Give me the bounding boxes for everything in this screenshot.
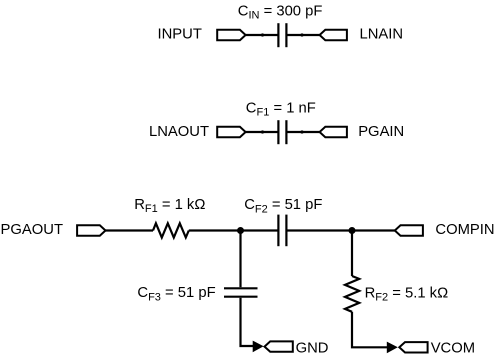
svg-text:INPUT: INPUT bbox=[158, 27, 202, 43]
capacitor CF3 bbox=[224, 288, 258, 296]
svg-text:PGAOUT: PGAOUT bbox=[1, 222, 63, 238]
svg-text:LNAIN: LNAIN bbox=[360, 27, 404, 43]
svg-text:LNAOUT: LNAOUT bbox=[149, 124, 209, 140]
capacitor CIN bbox=[278, 23, 286, 47]
svg-text:COMPIN: COMPIN bbox=[435, 222, 494, 238]
capacitor CF1 bbox=[278, 120, 286, 144]
svg-text:GND: GND bbox=[296, 340, 329, 356]
svg-text:VCOM: VCOM bbox=[431, 340, 475, 356]
wire RF1 to node A bbox=[189, 229, 278, 231]
svg-text:PGAIN: PGAIN bbox=[358, 124, 404, 140]
terminal PGAOUT (port tag) bbox=[77, 225, 105, 235]
terminal VCOM (port tag) bbox=[399, 342, 427, 352]
wire CIN to LNAIN bbox=[287, 34, 319, 36]
junction dot on wire bbox=[300, 130, 303, 133]
wire PGAOUT to RF1 bbox=[106, 229, 154, 231]
svg-text:RF1 = 1 kΩ: RF1 = 1 kΩ bbox=[134, 197, 205, 215]
junction dot on wire bbox=[300, 33, 303, 36]
wire node B down to RF2 bbox=[351, 231, 353, 277]
arrow into GND terminal bbox=[253, 341, 264, 353]
terminal INPUT (port tag) bbox=[217, 30, 245, 40]
node B junction dot bbox=[349, 227, 356, 234]
junction dot on wire bbox=[261, 33, 264, 36]
wire RF2 down and right to VCOM bbox=[352, 312, 389, 348]
resistor RF1 bbox=[153, 223, 189, 237]
svg-text:CF1 = 1 nF: CF1 = 1 nF bbox=[246, 100, 316, 118]
wire LNAOUT to CF1 bbox=[246, 131, 278, 133]
terminal LNAOUT (port tag) bbox=[217, 127, 245, 137]
wire CF2 to node B bbox=[287, 229, 395, 231]
terminal LNAIN (port tag) bbox=[320, 30, 347, 40]
wire CF3 down and right to GND bbox=[241, 298, 256, 346]
node A junction dot bbox=[237, 227, 244, 234]
terminal GND (port tag) bbox=[265, 341, 293, 351]
terminal PGAIN (port tag) bbox=[320, 127, 347, 137]
wire node A down to CF3 bbox=[239, 231, 241, 288]
junction dot on wire bbox=[261, 130, 264, 133]
arrow into VCOM terminal bbox=[387, 342, 398, 354]
wire CF1 to PGAIN bbox=[287, 131, 319, 133]
resistor RF2 bbox=[345, 276, 359, 312]
capacitor CF2 bbox=[278, 215, 286, 247]
wire INPUT to CIN bbox=[246, 34, 278, 36]
terminal COMPIN (port tag) bbox=[395, 225, 423, 235]
